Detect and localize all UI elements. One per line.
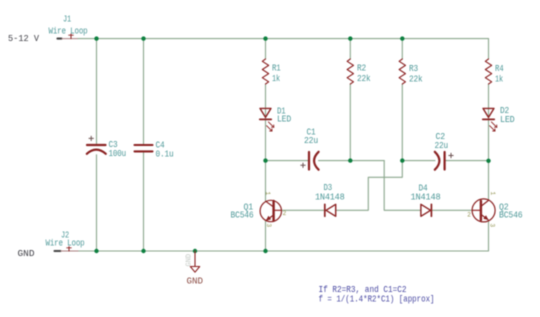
transistor Q2 xyxy=(472,199,495,222)
wire C3 branch lower xyxy=(96,155,98,251)
wire C2 to Q2 collector node xyxy=(445,160,489,162)
junction top C4 xyxy=(141,36,145,40)
wire bottom rail xyxy=(78,250,489,252)
wire R2 top lead xyxy=(349,39,351,59)
svg-text:R1: R1 xyxy=(272,64,281,74)
transistor Q1 xyxy=(260,200,281,221)
junction mid R2 xyxy=(348,158,352,162)
connector J2 xyxy=(46,230,85,251)
resistor R4 xyxy=(485,59,491,84)
svg-text:GND: GND xyxy=(18,249,35,259)
svg-text:22k: 22k xyxy=(409,75,423,85)
svg-text:22u: 22u xyxy=(435,141,449,151)
svg-text:3: 3 xyxy=(489,224,496,228)
junction top R3 xyxy=(400,36,404,40)
svg-text:100u: 100u xyxy=(109,149,127,159)
wire D3 to Q1 base xyxy=(281,209,324,211)
ground power symbol xyxy=(190,251,199,272)
svg-text:J1: J1 xyxy=(63,15,71,25)
svg-text:Wire Loop: Wire Loop xyxy=(49,27,88,37)
junction bottom C4 xyxy=(141,249,145,253)
svg-text:2: 2 xyxy=(467,211,471,218)
wire C4 branch lower xyxy=(143,152,145,251)
svg-text:1N4148: 1N4148 xyxy=(411,193,441,203)
svg-text:GND: GND xyxy=(186,254,194,267)
junction mid Q1 collector xyxy=(263,158,267,162)
svg-text:1: 1 xyxy=(264,192,271,196)
wire Q2 emitter xyxy=(488,221,490,251)
junction bottom GND xyxy=(193,249,197,253)
wire R3 node to C2 xyxy=(402,160,435,162)
svg-text:R3: R3 xyxy=(409,64,418,74)
wire top rail xyxy=(78,38,489,40)
wire C3 branch upper xyxy=(96,39,98,145)
wire corner down to D4 xyxy=(384,161,421,211)
svg-text:1k: 1k xyxy=(495,75,503,85)
wire R1 to D1 to Q1 collector xyxy=(265,84,267,201)
svg-text:BC546: BC546 xyxy=(499,211,523,221)
junction bottom Q1 emitter xyxy=(263,249,267,253)
svg-text:BC546: BC546 xyxy=(231,211,254,221)
svg-text:GND: GND xyxy=(187,276,204,286)
svg-text:2: 2 xyxy=(283,210,287,217)
capacitor C1 xyxy=(301,152,319,170)
capacitor C2 xyxy=(435,152,453,170)
diode D3 xyxy=(325,204,336,216)
capacitor C3 xyxy=(87,136,106,154)
junction top C3 xyxy=(94,36,98,40)
wire staircase R3 node to D3 xyxy=(336,161,403,211)
svg-text:R2: R2 xyxy=(357,64,366,74)
wire R1 top lead xyxy=(265,39,267,59)
junction top R2 xyxy=(348,36,352,40)
wire R3 top lead xyxy=(401,39,403,59)
svg-text:5-12 V: 5-12 V xyxy=(8,34,40,44)
wire R3 bottom lead xyxy=(401,84,403,161)
wire D4 to Q2 base xyxy=(432,209,473,211)
junction mid Q2 collector xyxy=(486,159,490,163)
connector J1 xyxy=(49,15,88,39)
wire R4 top lead xyxy=(488,39,490,59)
resistor R3 xyxy=(399,59,405,84)
wire C1 to corner xyxy=(319,160,385,162)
diode D1 LED xyxy=(260,108,274,131)
svg-text:22u: 22u xyxy=(304,136,318,146)
capacitor C4 xyxy=(135,145,153,151)
junction mid R3 xyxy=(400,158,404,162)
svg-text:R4: R4 xyxy=(495,64,504,74)
svg-text:1k: 1k xyxy=(272,74,280,84)
svg-text:3: 3 xyxy=(265,224,272,228)
wire R2 bottom lead xyxy=(349,84,351,161)
svg-text:22k: 22k xyxy=(357,74,371,84)
svg-text:1N4148: 1N4148 xyxy=(315,192,345,202)
wire C4 branch upper xyxy=(143,39,145,144)
wire R4 to D2 to Q2 collector xyxy=(488,84,490,200)
wire Q1 emitter xyxy=(265,221,267,251)
svg-text:1: 1 xyxy=(489,192,496,196)
wire Q1 collector node to C1 xyxy=(266,160,309,162)
diode D2 LED xyxy=(483,108,497,131)
svg-text:LED: LED xyxy=(277,115,291,125)
junction top R1 xyxy=(263,36,267,40)
resistor R2 xyxy=(347,59,353,84)
diode D4 xyxy=(421,204,432,216)
svg-text:0.1u: 0.1u xyxy=(156,149,174,159)
svg-text:LED: LED xyxy=(500,115,515,125)
resistor R1 xyxy=(262,59,268,84)
svg-text:Wire Loop: Wire Loop xyxy=(46,238,85,248)
svg-text:f = 1/(1.4*R2*C1) [approx]: f = 1/(1.4*R2*C1) [approx] xyxy=(319,294,435,304)
junction bottom C3 xyxy=(94,249,98,253)
